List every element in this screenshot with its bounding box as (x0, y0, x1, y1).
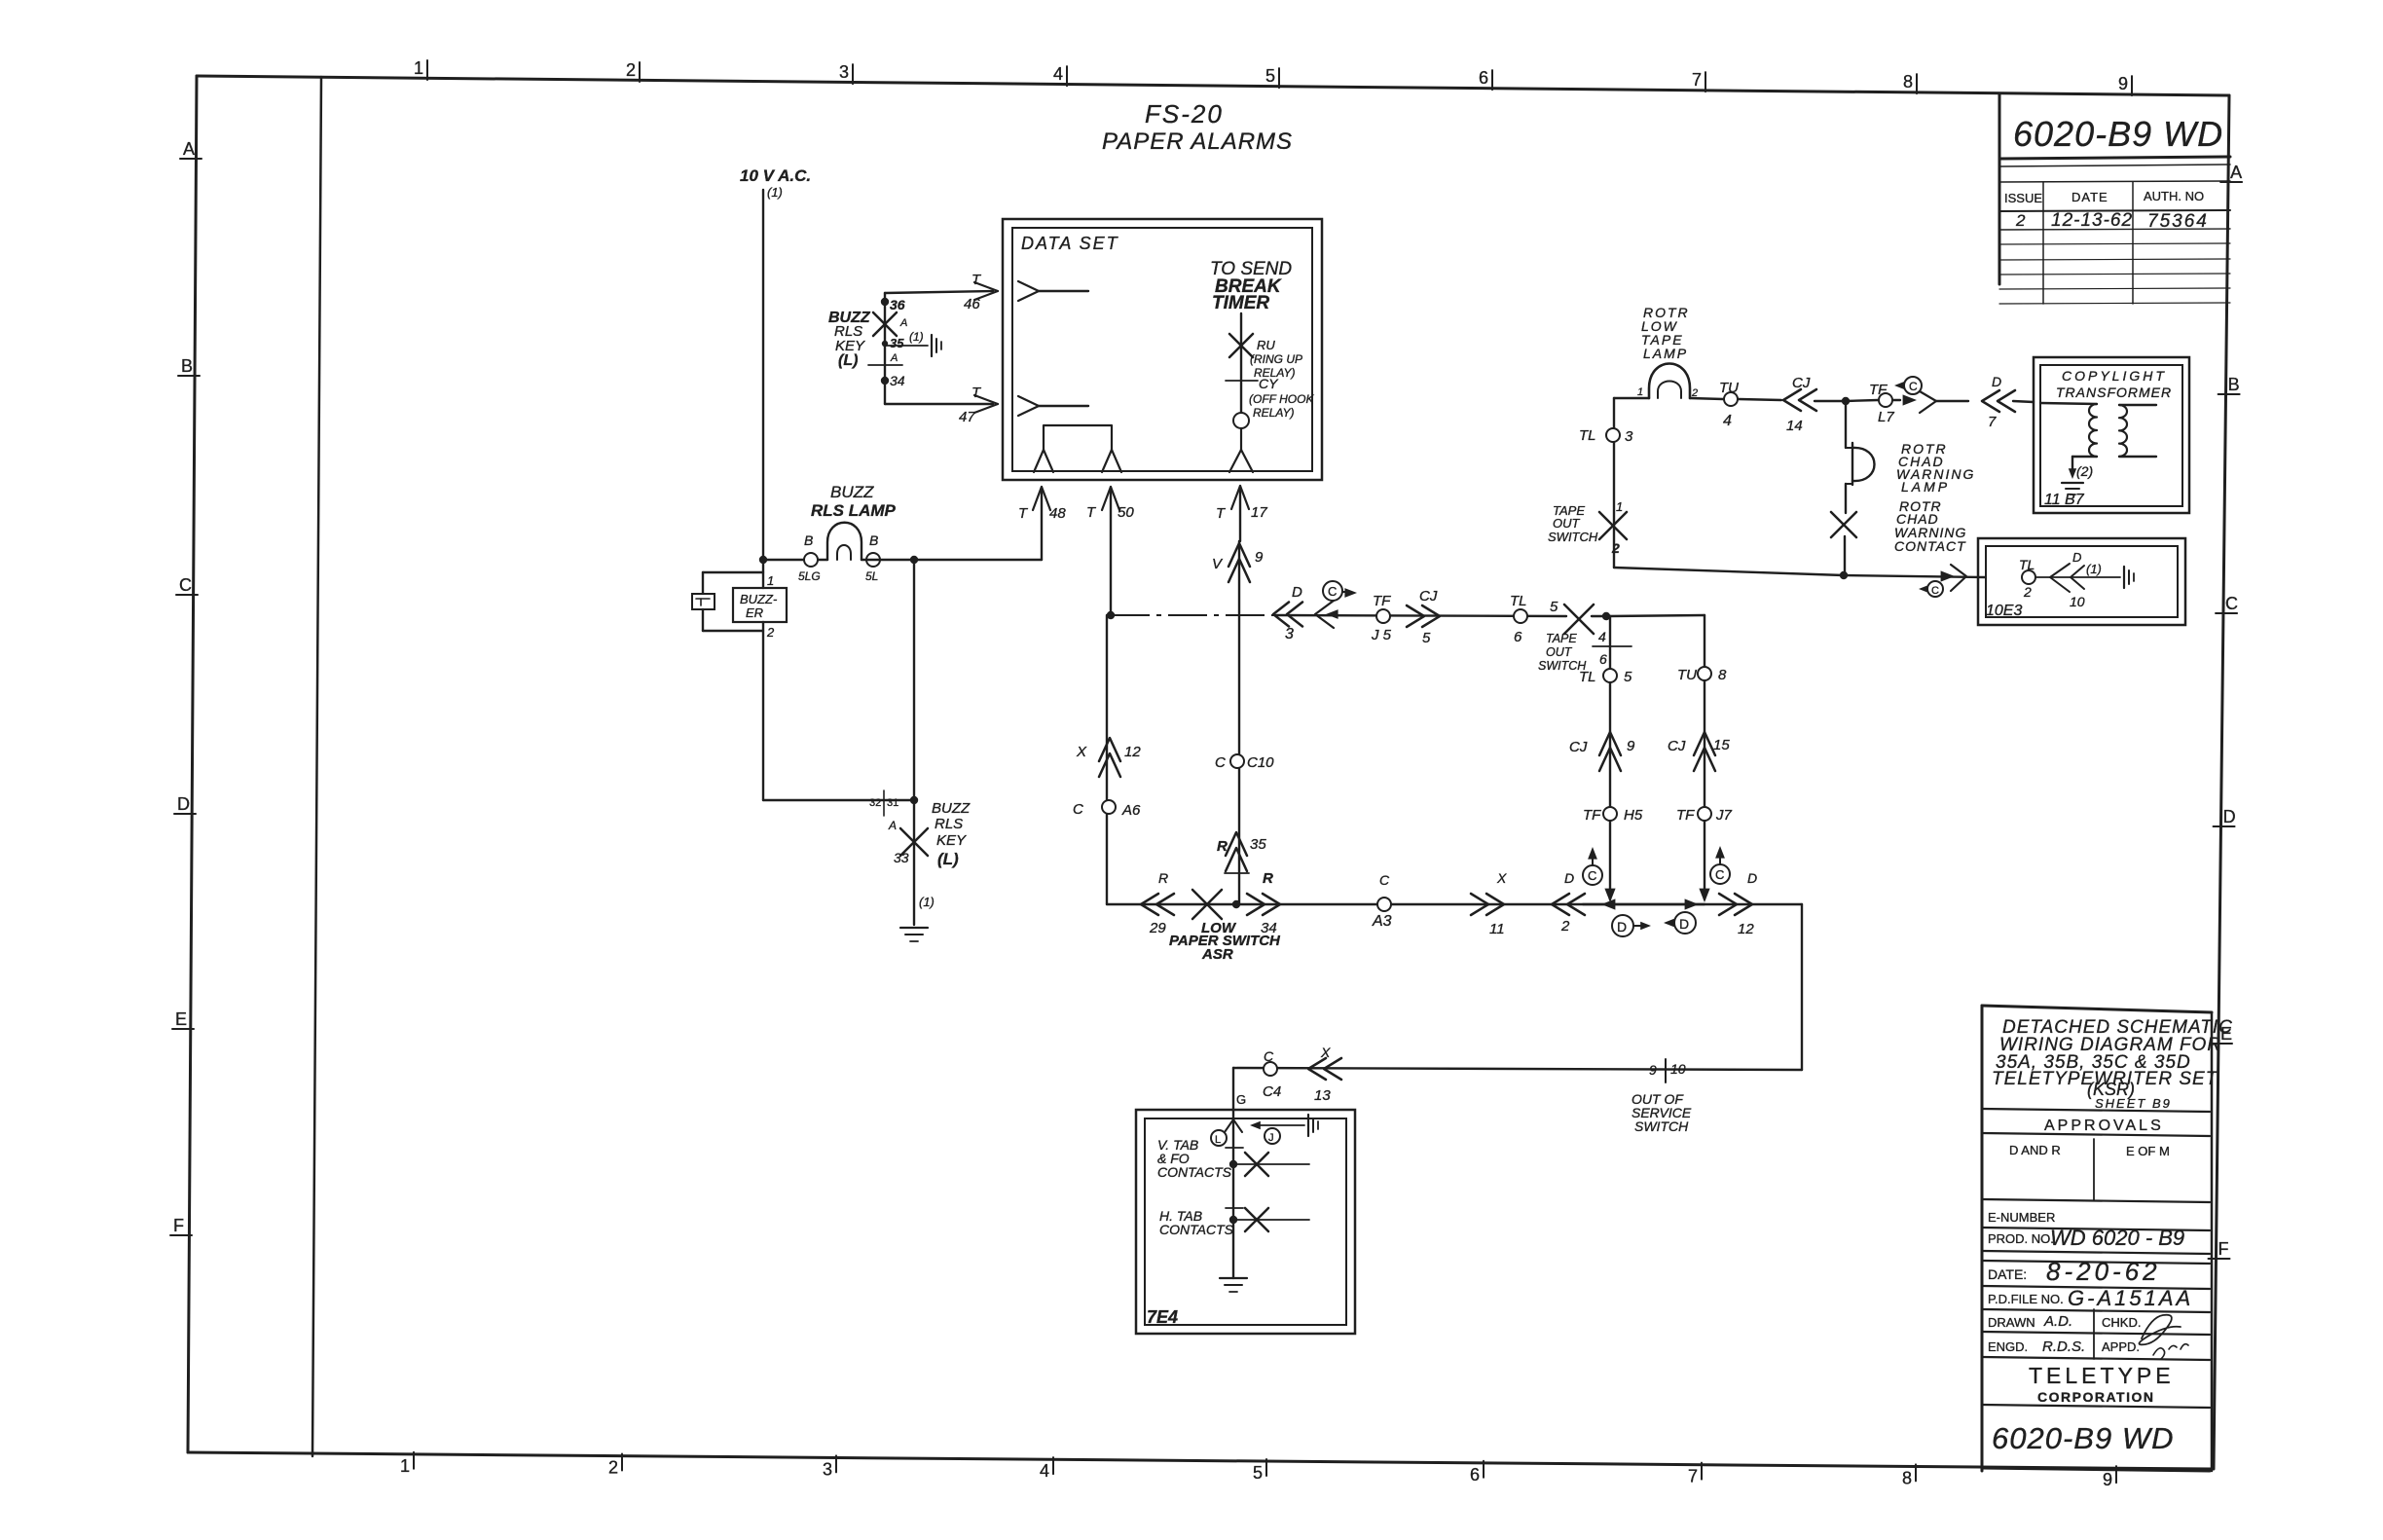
svg-text:10: 10 (1670, 1061, 1686, 1077)
svg-text:B: B (2228, 375, 2240, 394)
svg-text:7: 7 (1692, 70, 1702, 90)
svg-text:CHKD.: CHKD. (2102, 1315, 2141, 1330)
svg-text:PAPER ALARMS: PAPER ALARMS (1102, 128, 1293, 155)
svg-text:14: 14 (1786, 418, 1803, 434)
svg-text:G-A151AA: G-A151AA (2068, 1286, 2193, 1310)
svg-text:BUZZ-: BUZZ- (740, 592, 778, 606)
svg-text:TU: TU (1677, 667, 1697, 683)
svg-text:B: B (804, 532, 813, 548)
svg-text:75364: 75364 (2147, 211, 2209, 232)
svg-text:5: 5 (1253, 1463, 1263, 1483)
svg-text:A: A (2230, 163, 2242, 182)
svg-text:10: 10 (2070, 594, 2085, 609)
svg-text:R.D.S.: R.D.S. (2042, 1338, 2085, 1355)
svg-text:2: 2 (2015, 211, 2026, 230)
svg-text:R: R (1158, 870, 1168, 886)
svg-text:CJ: CJ (1419, 588, 1438, 605)
svg-text:TAPE: TAPE (1546, 632, 1577, 645)
svg-text:8: 8 (1718, 667, 1727, 683)
svg-text:1: 1 (1637, 386, 1643, 398)
svg-text:E-NUMBER: E-NUMBER (1988, 1210, 2055, 1225)
svg-text:LAMP: LAMP (1901, 479, 1950, 495)
svg-text:DATE: DATE (2071, 190, 2108, 204)
svg-text:RLS LAMP: RLS LAMP (811, 501, 897, 520)
svg-text:C: C (1379, 872, 1390, 888)
svg-text:COPYLIGHT: COPYLIGHT (2062, 368, 2167, 384)
svg-text:LAMP: LAMP (1643, 346, 1688, 361)
svg-text:TIMER: TIMER (1212, 293, 1269, 313)
svg-text:APPROVALS: APPROVALS (2044, 1118, 2164, 1134)
svg-text:(L): (L) (937, 850, 959, 868)
svg-text:(1): (1) (2086, 562, 2102, 576)
svg-text:C: C (1073, 801, 1083, 818)
svg-text:4: 4 (1040, 1461, 1049, 1481)
svg-text:(1): (1) (919, 895, 935, 909)
svg-text:9: 9 (2118, 74, 2128, 93)
svg-text:7: 7 (1988, 414, 1997, 430)
svg-text:6020-B9 WD: 6020-B9 WD (2013, 114, 2223, 154)
svg-text:11: 11 (1489, 921, 1505, 937)
svg-text:DATA SET: DATA SET (1021, 234, 1119, 253)
svg-text:48: 48 (1049, 505, 1066, 522)
svg-text:9: 9 (1255, 549, 1264, 566)
svg-text:R: R (1263, 870, 1273, 887)
svg-text:CJ: CJ (1569, 739, 1588, 755)
svg-text:11 B7: 11 B7 (2044, 492, 2085, 508)
svg-text:6: 6 (1479, 68, 1488, 88)
svg-text:D: D (1617, 919, 1627, 935)
svg-text:C4: C4 (1263, 1083, 1281, 1100)
svg-text:3: 3 (823, 1459, 832, 1479)
svg-text:1: 1 (400, 1456, 410, 1476)
svg-text:35: 35 (1250, 836, 1266, 853)
svg-text:7E4: 7E4 (1147, 1307, 1178, 1327)
svg-text:C: C (1931, 585, 1939, 597)
svg-text:L: L (1215, 1134, 1221, 1146)
svg-text:CY: CY (1259, 376, 1279, 391)
svg-text:9: 9 (2103, 1470, 2112, 1489)
svg-text:OUT: OUT (1546, 645, 1573, 659)
svg-text:R: R (1217, 838, 1228, 855)
svg-text:ENGD.: ENGD. (1988, 1339, 2028, 1354)
svg-text:TL: TL (1579, 427, 1596, 444)
svg-text:TF: TF (1583, 807, 1601, 824)
svg-text:SWITCH: SWITCH (1634, 1118, 1689, 1134)
svg-text:C: C (1588, 868, 1596, 883)
svg-text:TF: TF (1373, 593, 1391, 609)
svg-text:APPD.: APPD. (2102, 1339, 2140, 1354)
svg-text:2: 2 (766, 625, 775, 640)
svg-text:TL: TL (1510, 593, 1527, 609)
svg-text:F: F (173, 1216, 184, 1235)
svg-text:2: 2 (1560, 918, 1570, 935)
svg-text:D: D (1992, 374, 2001, 389)
svg-text:C: C (2225, 594, 2238, 613)
svg-text:CORPORATION: CORPORATION (2037, 1389, 2154, 1405)
svg-text:TF: TF (1869, 382, 1888, 398)
svg-text:B: B (869, 532, 878, 548)
svg-text:2: 2 (626, 60, 636, 80)
svg-text:50: 50 (1118, 504, 1134, 521)
svg-text:(2): (2) (2076, 463, 2093, 479)
svg-text:3: 3 (1285, 626, 1294, 642)
svg-text:X: X (1496, 870, 1507, 886)
svg-text:4: 4 (1053, 64, 1063, 84)
svg-text:FS-20: FS-20 (1145, 99, 1224, 128)
svg-text:D: D (1679, 916, 1689, 932)
svg-text:1: 1 (1616, 499, 1623, 514)
svg-text:31: 31 (887, 797, 898, 809)
svg-text:C10: C10 (1247, 754, 1274, 771)
svg-text:D: D (1747, 870, 1757, 886)
svg-text:(RING UP: (RING UP (1250, 352, 1302, 366)
svg-text:CONTACTS: CONTACTS (1157, 1164, 1232, 1180)
svg-text:47: 47 (959, 409, 975, 425)
svg-text:ISSUE: ISSUE (2004, 191, 2042, 205)
svg-text:OUT: OUT (1553, 516, 1581, 531)
svg-text:TF: TF (1676, 807, 1695, 824)
svg-text:8-20-62: 8-20-62 (2046, 1257, 2161, 1286)
svg-text:6: 6 (1470, 1465, 1480, 1485)
svg-text:D AND R: D AND R (2009, 1143, 2061, 1157)
svg-text:RLS: RLS (935, 816, 963, 832)
svg-text:12-13-62: 12-13-62 (2051, 210, 2133, 231)
svg-text:33: 33 (894, 850, 909, 865)
svg-text:(L): (L) (838, 352, 858, 369)
svg-text:ER: ER (746, 605, 763, 620)
svg-text:4: 4 (1598, 629, 1606, 644)
svg-text:X: X (1320, 1045, 1331, 1060)
svg-text:BUZZ: BUZZ (830, 483, 874, 501)
svg-text:5L: 5L (865, 569, 878, 583)
svg-text:BUZZ: BUZZ (932, 800, 971, 817)
svg-text:5: 5 (1550, 599, 1558, 615)
svg-text:2: 2 (2023, 584, 2032, 600)
svg-text:TL: TL (1579, 669, 1596, 685)
svg-text:J: J (1268, 1132, 1274, 1144)
svg-text:C: C (1215, 754, 1226, 771)
svg-text:8: 8 (1903, 72, 1913, 92)
svg-text:SHEET B9: SHEET B9 (2095, 1096, 2172, 1111)
svg-text:TU: TU (1719, 380, 1739, 396)
svg-text:B: B (181, 356, 193, 376)
svg-text:TL: TL (2019, 557, 2035, 572)
svg-text:L7: L7 (1878, 409, 1894, 425)
svg-text:D: D (177, 794, 190, 814)
svg-text:4: 4 (1723, 413, 1732, 429)
svg-text:34: 34 (890, 373, 905, 388)
svg-text:D: D (1292, 584, 1302, 601)
svg-text:12: 12 (1738, 921, 1754, 937)
svg-text:ASR: ASR (1201, 946, 1233, 963)
svg-text:5: 5 (1265, 66, 1275, 86)
svg-text:6020-B9 WD: 6020-B9 WD (1992, 1421, 2174, 1455)
svg-text:A: A (183, 139, 195, 159)
svg-text:1: 1 (767, 573, 774, 588)
svg-text:CONTACTS: CONTACTS (1159, 1222, 1234, 1237)
svg-text:A: A (899, 317, 907, 329)
svg-text:5: 5 (1422, 630, 1431, 646)
svg-text:PROD. NO.: PROD. NO. (1988, 1231, 2054, 1246)
svg-text:DRAWN: DRAWN (1988, 1315, 2035, 1330)
svg-text:CJ: CJ (1792, 375, 1811, 391)
svg-text:2: 2 (608, 1458, 618, 1478)
svg-text:A: A (888, 819, 897, 832)
svg-text:32: 32 (869, 797, 881, 809)
svg-text:G: G (1236, 1092, 1246, 1107)
svg-text:3: 3 (839, 62, 849, 82)
svg-text:RELAY): RELAY) (1253, 406, 1294, 420)
svg-text:13: 13 (1314, 1087, 1331, 1104)
svg-text:9: 9 (1649, 1062, 1657, 1078)
svg-text:E OF M: E OF M (2126, 1144, 2170, 1158)
svg-text:RU: RU (1257, 338, 1275, 352)
svg-text:WD 6020 - B9: WD 6020 - B9 (2050, 1226, 2184, 1250)
svg-text:(1): (1) (909, 330, 924, 344)
svg-text:J 5: J 5 (1371, 627, 1392, 643)
svg-text:H5: H5 (1624, 807, 1643, 824)
svg-text:12: 12 (1124, 744, 1141, 760)
svg-text:A: A (890, 352, 898, 364)
svg-text:3: 3 (1625, 428, 1633, 445)
svg-text:17: 17 (1251, 504, 1267, 521)
svg-text:46: 46 (964, 296, 980, 312)
svg-text:D: D (2223, 807, 2236, 826)
svg-text:15: 15 (1713, 737, 1730, 753)
svg-text:X: X (1076, 744, 1087, 760)
svg-text:DATE:: DATE: (1988, 1266, 2027, 1282)
svg-text:C: C (1328, 584, 1337, 599)
svg-text:36: 36 (890, 297, 905, 312)
svg-text:P.D.FILE NO.: P.D.FILE NO. (1988, 1292, 2064, 1306)
svg-text:A.D.: A.D. (2043, 1313, 2072, 1330)
svg-text:TRANSFORMER: TRANSFORMER (2056, 385, 2172, 400)
svg-text:D: D (2072, 550, 2081, 565)
svg-text:SWITCH: SWITCH (1548, 530, 1598, 544)
svg-text:7: 7 (1688, 1467, 1698, 1486)
svg-text:C: C (179, 575, 192, 595)
svg-text:9: 9 (1627, 738, 1635, 754)
svg-text:(1): (1) (767, 185, 783, 200)
svg-text:6: 6 (1514, 629, 1522, 645)
svg-text:(OFF HOOK: (OFF HOOK (1249, 392, 1314, 406)
svg-text:J7: J7 (1715, 807, 1733, 824)
svg-text:5: 5 (1624, 669, 1632, 685)
svg-text:1: 1 (414, 58, 423, 78)
svg-text:CONTACT: CONTACT (1894, 538, 1966, 554)
svg-text:8: 8 (1902, 1468, 1912, 1487)
svg-text:C: C (1715, 867, 1724, 882)
svg-text:A6: A6 (1121, 802, 1141, 819)
svg-text:5LG: 5LG (798, 569, 821, 583)
svg-text:10E3: 10E3 (1986, 603, 2022, 619)
svg-text:CJ: CJ (1668, 738, 1686, 754)
svg-text:6: 6 (1599, 651, 1607, 667)
svg-text:2: 2 (1611, 540, 1620, 556)
svg-text:35: 35 (890, 336, 904, 350)
svg-text:C: C (1909, 380, 1918, 393)
svg-text:KEY: KEY (936, 832, 967, 849)
svg-text:E: E (175, 1009, 187, 1029)
svg-text:29: 29 (1149, 920, 1166, 936)
svg-text:AUTH. NO: AUTH. NO (2144, 189, 2204, 203)
svg-text:D: D (1564, 870, 1574, 886)
svg-text:C: C (1264, 1048, 1274, 1064)
svg-text:A3: A3 (1372, 913, 1392, 930)
svg-text:F: F (2218, 1239, 2229, 1259)
svg-text:TELETYPE: TELETYPE (2029, 1363, 2175, 1388)
svg-text:10 V A.C.: 10 V A.C. (740, 166, 811, 185)
